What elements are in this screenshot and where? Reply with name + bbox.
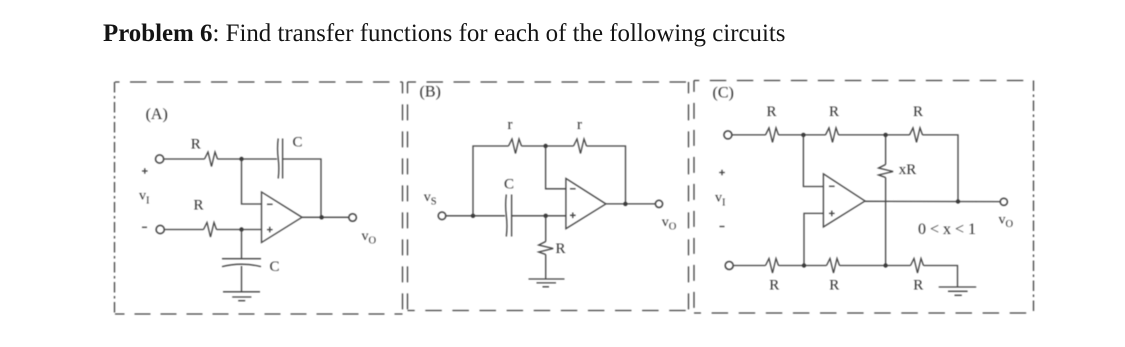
terminal output vO (B)	[655, 200, 662, 207]
resistor R (C top 1)	[766, 128, 779, 142]
wire A inverting input from node	[242, 159, 262, 204]
node output junction (B)	[623, 202, 627, 206]
wire C R2 to R3	[839, 134, 910, 136]
op-amp plus mark (C)	[829, 211, 835, 217]
svg-text:vI: vI	[139, 189, 150, 207]
terminal input C bottom	[725, 262, 733, 270]
ground (B)	[529, 279, 565, 287]
svg-text:0 < x < 1: 0 < x < 1	[918, 221, 976, 238]
wire B top rail to output corner	[587, 146, 626, 204]
box C dashed border left	[693, 81, 695, 314]
wire C xR upper lead	[885, 135, 887, 165]
wire B up from tap to top rail	[473, 146, 509, 216]
capacitor C (A ground)	[222, 259, 261, 267]
capacitor C (A feedback)	[278, 139, 283, 179]
wire B junction down to resistor R	[545, 216, 547, 242]
wire C xR lower lead crossing output line	[885, 178, 887, 266]
resistor r (B second)	[574, 139, 587, 154]
svg-text:R: R	[829, 278, 839, 294]
wire junction down to cap (A)	[241, 230, 243, 259]
resistor xR (C)	[879, 165, 894, 178]
resistor R (B ground leg)	[539, 242, 554, 255]
node junction B feedback tap	[471, 214, 475, 218]
wire C op-amp output line	[865, 200, 1000, 202]
wire C R6 to ground	[924, 266, 958, 288]
wire op-amp output (A)	[302, 216, 349, 218]
box A dashed border bottom	[115, 313, 403, 315]
svg-text:vO: vO	[999, 213, 1014, 231]
node junction C bottom 2	[883, 263, 887, 267]
op-amp plus mark (B)	[570, 213, 576, 219]
terminal input vS (B)	[438, 212, 446, 220]
box B dashed border bottom	[408, 310, 689, 312]
svg-text:C: C	[270, 259, 280, 275]
wire C R5 to R6	[840, 265, 911, 267]
svg-text:(A): (A)	[146, 106, 168, 123]
ground (A)	[223, 292, 260, 301]
box C dashed border bottom	[694, 312, 1034, 314]
wire A bottom input to resistor	[164, 229, 203, 231]
svg-text:vO: vO	[662, 215, 677, 233]
node junction C top 1	[801, 133, 805, 137]
resistor R (C top 3)	[910, 128, 923, 142]
box A dashed border right	[402, 82, 404, 314]
box A dashed border left (dash-dot)	[114, 82, 116, 314]
node junction B plus tap	[544, 214, 548, 218]
box C dashed border top	[694, 80, 1034, 82]
node output junction (A)	[319, 215, 323, 219]
svg-text:r: r	[508, 117, 513, 133]
box B dashed border left	[407, 82, 409, 311]
node output junction (C)	[956, 199, 960, 203]
svg-text:xR: xR	[899, 162, 917, 178]
wire C top rail right corner down	[923, 135, 959, 202]
op-amp U1 (A)	[262, 192, 303, 243]
plus sign input C	[719, 170, 725, 176]
svg-text:(C): (C)	[713, 85, 734, 102]
ground (C)	[939, 287, 977, 295]
svg-text:C: C	[504, 177, 514, 193]
svg-text:r: r	[577, 117, 582, 133]
plus sign input A	[142, 168, 148, 174]
op-amp minus mark (C)	[829, 185, 835, 187]
svg-text:R: R	[191, 137, 201, 153]
wire C inverting input from junction 1	[803, 135, 823, 187]
minus sign input A	[142, 226, 147, 228]
svg-text:vS: vS	[424, 190, 437, 208]
wire C R1 to R2	[779, 134, 826, 136]
wire A resistor to cap	[218, 158, 278, 160]
op-amp minus mark (B)	[570, 188, 576, 190]
svg-text:vI: vI	[715, 191, 726, 209]
resistor r (B first)	[509, 139, 522, 154]
box B dashed border right	[688, 82, 690, 311]
svg-text:R: R	[556, 241, 566, 257]
node junction C bottom 1	[802, 263, 806, 267]
resistor R (A bottom)	[204, 223, 217, 238]
wire B input to cap	[446, 215, 505, 217]
minus sign input C	[720, 226, 725, 228]
svg-text:C: C	[293, 135, 303, 151]
svg-text:R: R	[769, 278, 779, 294]
svg-text:(B): (B)	[420, 84, 441, 101]
wire A top input to resistor	[164, 158, 205, 160]
node junction B top middle	[543, 144, 547, 148]
capacitor C (B series)	[506, 195, 512, 237]
op-amp plus mark (A)	[267, 227, 273, 233]
terminal - input A bottom	[156, 225, 164, 233]
wire C R4 to R5	[779, 265, 827, 267]
terminal + input A top	[156, 155, 164, 163]
resistor R (C bottom 2)	[827, 259, 840, 274]
wire C top input to R1	[732, 134, 766, 136]
wire A resistor to op-amp plus	[217, 229, 262, 231]
wire B inverting input from top junction	[546, 146, 566, 189]
box B dashed border top	[408, 81, 689, 83]
svg-text:R: R	[913, 278, 923, 294]
box A dashed border top	[115, 81, 403, 83]
node junction A top	[239, 157, 243, 161]
box C dashed border right (dash-dot)	[1033, 81, 1035, 314]
op-amp U1 (B)	[566, 178, 606, 228]
svg-text:vO: vO	[362, 229, 377, 247]
title	[103, 22, 786, 47]
wire C bottom input to R4	[733, 265, 765, 267]
op-amp minus mark (A)	[267, 203, 273, 205]
svg-text:R: R	[767, 104, 777, 120]
wire B resistor to ground	[545, 255, 547, 280]
terminal input C top	[724, 131, 732, 139]
wire cap to ground (A)	[241, 266, 243, 292]
wire C plus input leftward and down	[804, 213, 823, 265]
resistor R (C bottom 1)	[766, 259, 779, 274]
resistor R (A top)	[205, 152, 218, 167]
wire cap to corner down to output node (A)	[283, 159, 321, 217]
terminal output vO (A)	[349, 214, 357, 222]
terminal output vO (C)	[1000, 198, 1007, 205]
svg-text:R: R	[829, 104, 839, 120]
node junction C top 2	[883, 133, 887, 137]
wire B between resistors	[522, 145, 574, 147]
resistor R (C bottom 3)	[911, 259, 924, 274]
wire B cap to op-amp plus	[512, 215, 566, 217]
svg-text:R: R	[913, 104, 923, 120]
op-amp U1 (C)	[823, 174, 865, 227]
wire B op-amp output	[606, 203, 656, 205]
resistor R (C top 2)	[826, 128, 839, 142]
svg-text:R: R	[194, 198, 204, 214]
node junction A bottom	[239, 227, 243, 231]
